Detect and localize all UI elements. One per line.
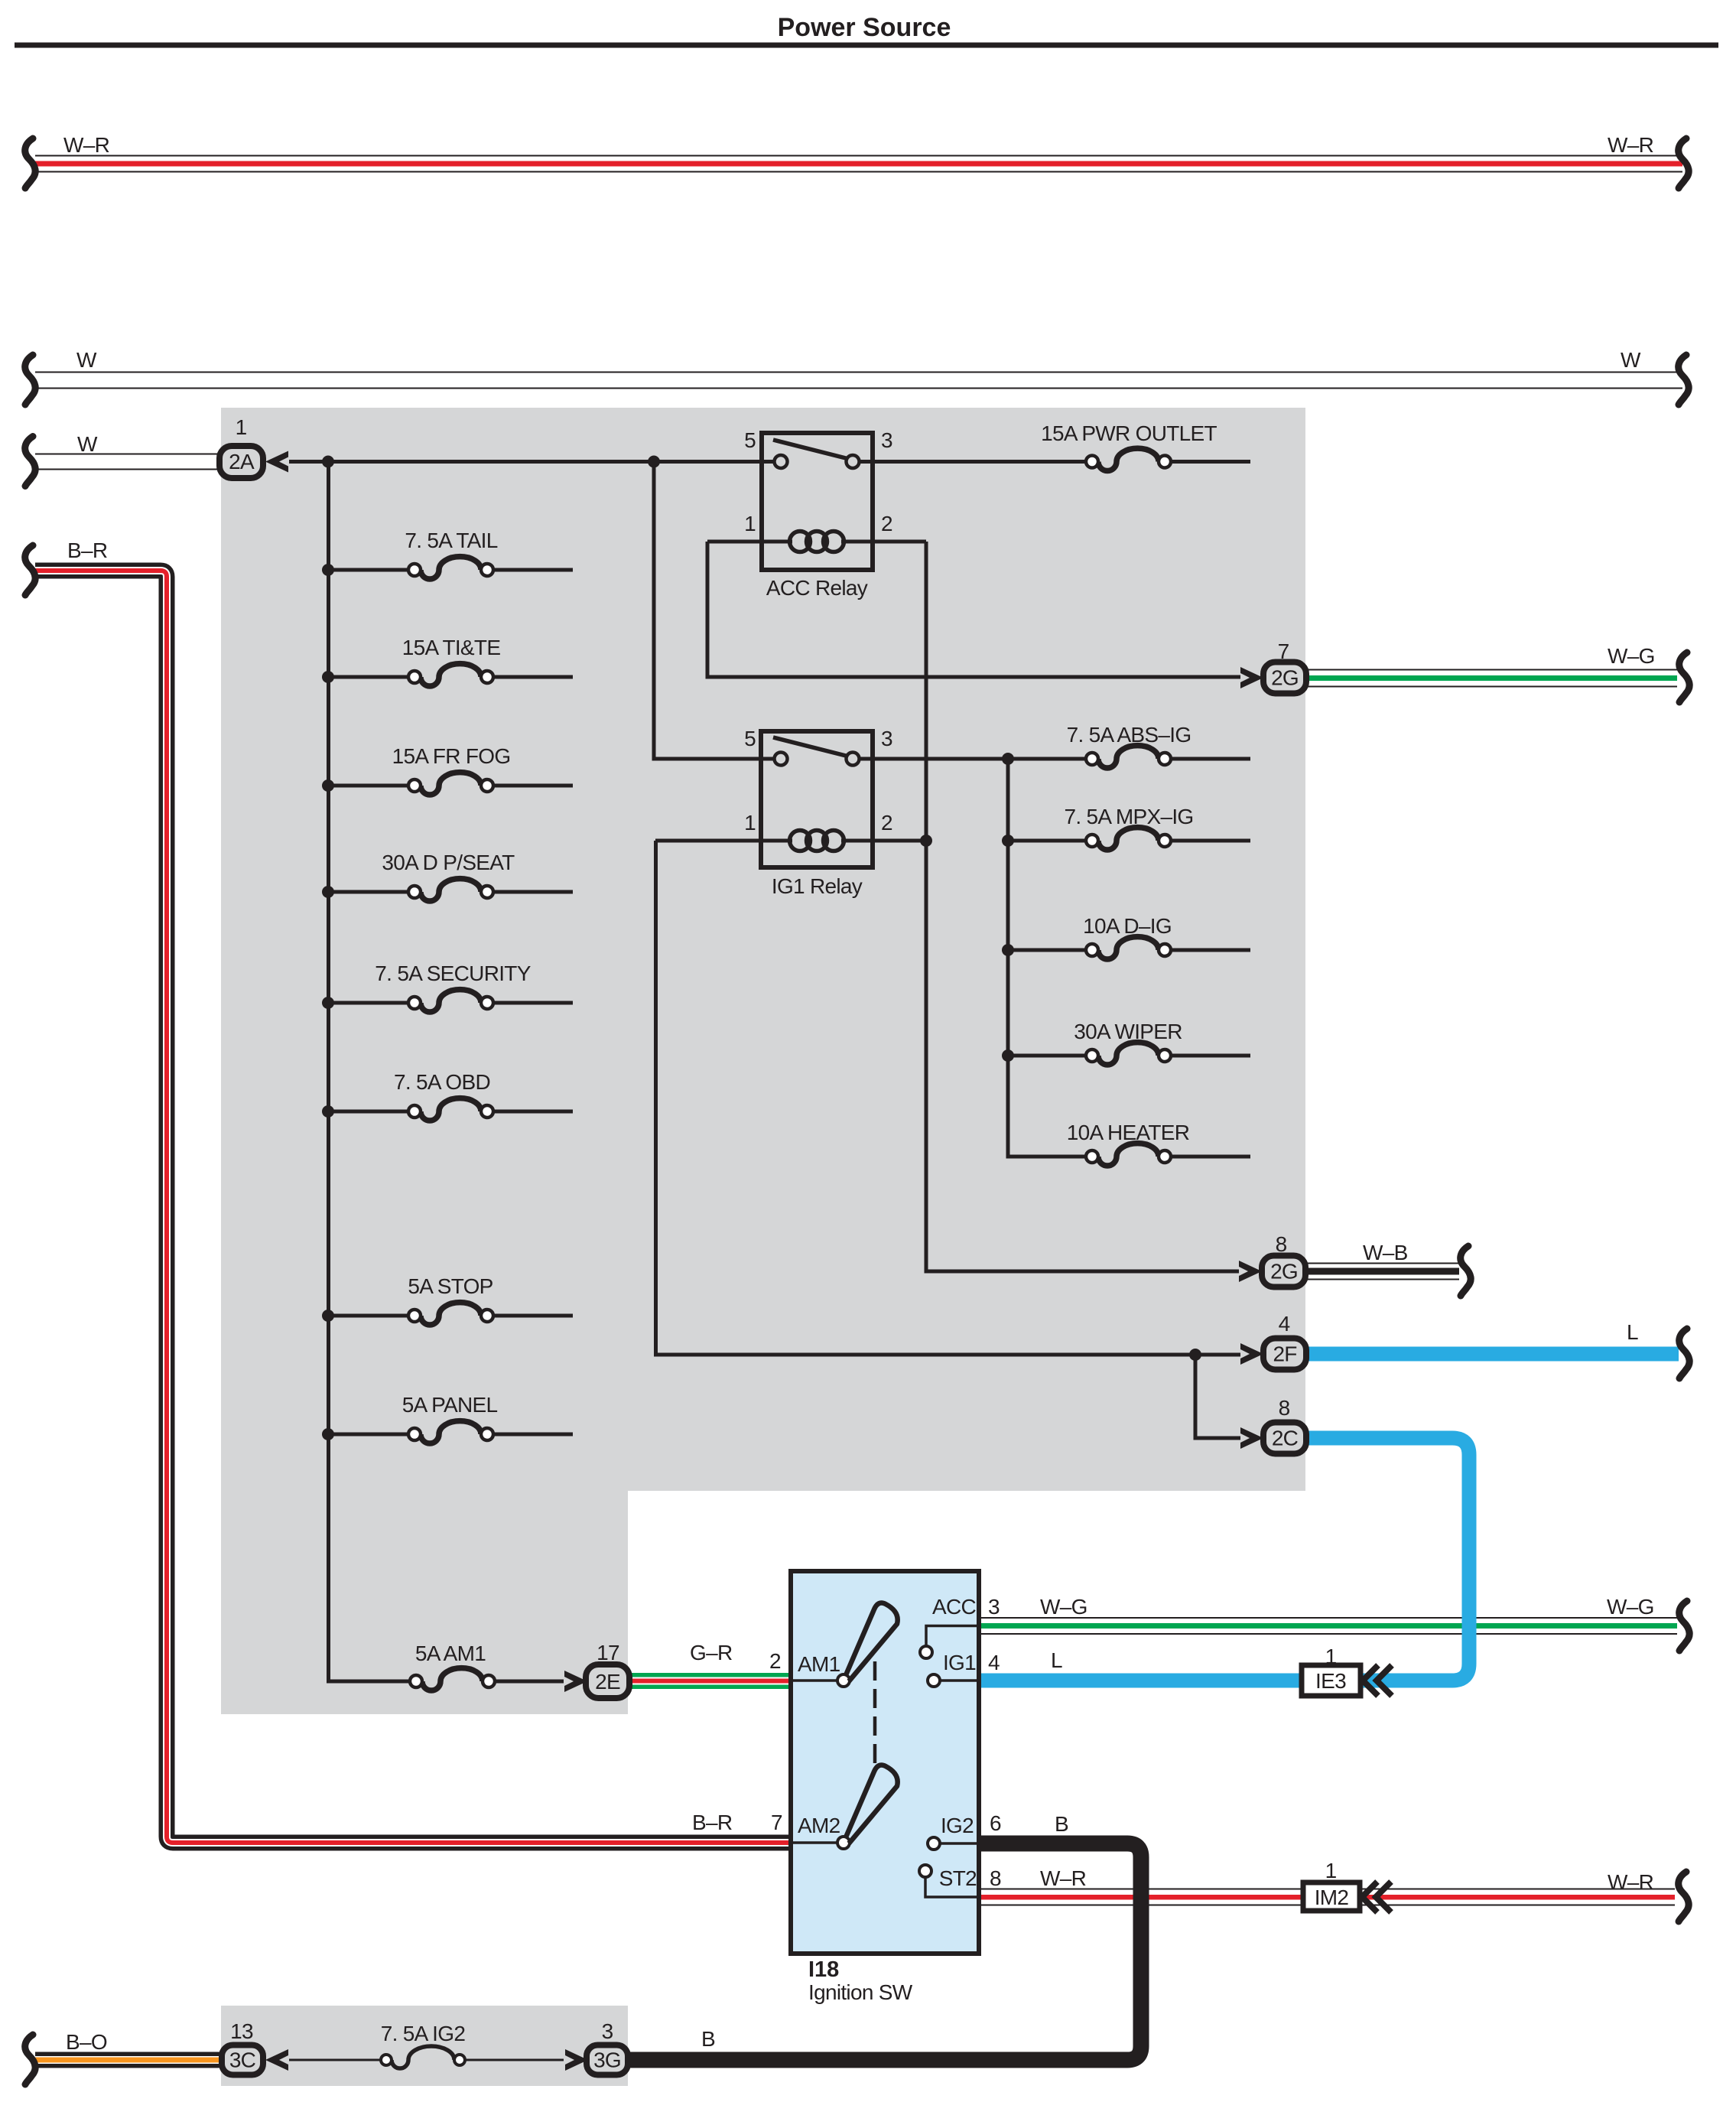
wire stub down to 2C	[1195, 1355, 1240, 1438]
node junction pin3 to right fuse column	[1002, 753, 1014, 765]
connector 2G pin7 with arrow	[1240, 639, 1306, 694]
svg-text:ACC Relay: ACC Relay	[766, 576, 868, 600]
ignition switch IG2 contact and lead	[928, 1837, 940, 1850]
svg-text:W–B: W–B	[1363, 1241, 1408, 1264]
relay IG1 Relay box	[744, 727, 892, 898]
svg-text:B–O: B–O	[66, 2030, 107, 2054]
fuse 30A D P/SEAT	[329, 851, 573, 901]
svg-text:3: 3	[988, 1595, 1000, 1619]
svg-text:3: 3	[602, 2019, 613, 2043]
ignition switch AM1 contact	[837, 1674, 850, 1687]
wire W-R top horizontal	[35, 156, 1682, 172]
connector 2E pin17 with arrow	[564, 1641, 629, 1698]
wire IG1 coil row	[655, 839, 792, 843]
svg-text:8: 8	[1279, 1396, 1290, 1420]
node junction coil-ground vertical at MPX row	[920, 835, 932, 847]
svg-text:IM2: IM2	[1315, 1886, 1349, 1909]
fuse 30A WIPER	[1008, 1020, 1250, 1065]
svg-text:7. 5A OBD: 7. 5A OBD	[394, 1070, 490, 1094]
svg-text:Power Source: Power Source	[778, 13, 951, 42]
svg-text:15A TI&TE: 15A TI&TE	[402, 636, 501, 659]
svg-text:2: 2	[881, 811, 892, 835]
svg-text:7: 7	[1278, 639, 1289, 663]
connector 3C pin13 with arrow	[222, 2019, 288, 2075]
wire IG1 pin1 route to 2F/2C	[656, 841, 1241, 1355]
svg-text:1: 1	[744, 512, 756, 535]
svg-text:W: W	[77, 432, 98, 456]
svg-text:ST2: ST2	[939, 1866, 977, 1890]
svg-text:W: W	[1621, 348, 1641, 372]
wire W-R from ST2 to right	[981, 1889, 1675, 1905]
fuse 10A HEATER	[1008, 1121, 1250, 1166]
node junction FR FOG row	[322, 779, 334, 792]
svg-text:2: 2	[881, 512, 892, 535]
node junction WIPER row	[1002, 1049, 1014, 1062]
svg-text:15A FR FOG: 15A FR FOG	[392, 744, 511, 768]
wire W-B ground lead from 2G pin8	[1306, 1264, 1459, 1280]
wire ACC relay coil row	[707, 540, 792, 544]
fuse 7.5A TAIL	[329, 529, 573, 579]
fuse 5A STOP	[329, 1274, 573, 1325]
fuse 15A PWR OUTLET	[860, 421, 1250, 471]
title rule	[15, 43, 1718, 48]
svg-text:1: 1	[1325, 1859, 1337, 1882]
svg-text:2: 2	[769, 1649, 781, 1673]
svg-text:6: 6	[990, 1811, 1001, 1835]
svg-text:B: B	[701, 2027, 715, 2051]
node junction STOP row	[322, 1310, 334, 1322]
fuse 7.5A SECURITY	[329, 962, 573, 1012]
connector-cut squiggle W-R bottom right	[1679, 1872, 1689, 1921]
svg-text:AM2: AM2	[798, 1814, 840, 1837]
node junction 2F/2C split	[1189, 1349, 1201, 1361]
connector-cut squiggle W-R left	[25, 138, 36, 188]
svg-text:4: 4	[988, 1651, 1000, 1674]
connector 2F pin4 with arrow	[1240, 1312, 1306, 1370]
svg-text:7. 5A MPX–IG: 7. 5A MPX–IG	[1064, 805, 1193, 828]
svg-text:I18: I18	[808, 1957, 839, 1982]
node junction 2A row to fuse column	[322, 456, 334, 468]
fuse 7.5A IG2	[289, 2022, 564, 2068]
ignition switch AM2 lead	[793, 1841, 838, 1844]
fuse 10A D-IG	[1008, 914, 1250, 959]
ignition switch AM1 lead	[793, 1679, 838, 1682]
svg-text:W–R: W–R	[1040, 1866, 1086, 1890]
svg-text:5A AM1: 5A AM1	[415, 1642, 486, 1665]
svg-text:1: 1	[236, 415, 247, 439]
svg-text:W–G: W–G	[1040, 1595, 1087, 1619]
svg-text:30A WIPER: 30A WIPER	[1074, 1020, 1182, 1043]
connector-cut squiggle W-G bottom right	[1679, 1601, 1690, 1651]
connector 2A with arrow	[219, 415, 288, 478]
svg-text:IG1 Relay: IG1 Relay	[772, 874, 863, 898]
svg-text:5A STOP: 5A STOP	[408, 1274, 493, 1298]
svg-text:W–R: W–R	[63, 133, 109, 157]
node junction TAIL row	[322, 564, 334, 576]
fuse 15A TI&TE	[329, 636, 573, 686]
ignition switch AM2 contact	[837, 1837, 850, 1849]
svg-text:3C: 3C	[229, 2048, 256, 2072]
fuse 7.5A ABS-IG	[1008, 723, 1250, 768]
svg-text:3: 3	[881, 428, 892, 452]
connector 2G pin8 with arrow	[1239, 1232, 1305, 1287]
svg-text:8: 8	[990, 1866, 1001, 1890]
svg-text:3: 3	[881, 727, 892, 750]
node junction OBD row	[322, 1105, 334, 1118]
svg-text:5A PANEL: 5A PANEL	[402, 1393, 498, 1417]
node junction TI&TE row	[322, 671, 334, 683]
connector-cut squiggle L right	[1679, 1329, 1690, 1378]
svg-text:1: 1	[744, 811, 756, 835]
svg-text:2C: 2C	[1272, 1427, 1299, 1450]
wire G-R from 2E to AM1	[629, 1673, 791, 1689]
svg-text:B–R: B–R	[67, 539, 107, 562]
connector 2C pin8 with arrow	[1240, 1396, 1306, 1454]
wire ACC pin1 to 2G pin7 row	[707, 542, 1240, 677]
svg-text:7: 7	[771, 1811, 782, 1834]
gray panel IG2 fuse block	[221, 2006, 628, 2086]
wire IG1 relay pin5 feed	[654, 462, 781, 760]
ignition switch I18 box	[791, 1571, 979, 1954]
node junction 2A row to IG1 relay feed	[648, 456, 660, 468]
svg-text:G–R: G–R	[690, 1641, 732, 1664]
svg-text:3G: 3G	[593, 2048, 621, 2072]
svg-text:10A HEATER: 10A HEATER	[1067, 1121, 1190, 1144]
wire 2A row to ACC relay pin5	[289, 460, 781, 464]
svg-text:1: 1	[1325, 1645, 1337, 1668]
wire L from 2F to right	[1306, 1347, 1679, 1362]
wire left fuse-column vertical with corner to AM1 fuse	[329, 460, 411, 1681]
svg-text:10A D–IG: 10A D–IG	[1083, 914, 1172, 938]
svg-text:7. 5A TAIL: 7. 5A TAIL	[405, 529, 497, 552]
svg-text:W–G: W–G	[1608, 644, 1655, 668]
fuse 5A AM1	[410, 1642, 564, 1690]
ignition switch blade dashed link	[873, 1661, 877, 1766]
svg-text:W–R: W–R	[1608, 1870, 1653, 1894]
svg-text:W–R: W–R	[1608, 133, 1653, 157]
svg-text:5: 5	[744, 428, 756, 452]
wire B-O from left squiggle to 3C	[35, 2052, 223, 2068]
svg-text:2G: 2G	[1270, 1260, 1298, 1284]
node junction PANEL row	[322, 1428, 334, 1440]
ignition switch AM1 blade	[846, 1603, 898, 1681]
svg-text:AM1: AM1	[798, 1652, 840, 1676]
wire W middle horizontal	[35, 373, 1682, 389]
svg-text:7. 5A IG2: 7. 5A IG2	[381, 2022, 466, 2045]
svg-text:Ignition SW: Ignition SW	[808, 1980, 913, 2004]
node junction SECURITY row	[322, 997, 334, 1009]
wire W into 2A	[35, 454, 219, 470]
svg-text:15A PWR OUTLET: 15A PWR OUTLET	[1041, 421, 1217, 445]
svg-text:30A D P/SEAT: 30A D P/SEAT	[382, 851, 515, 874]
wire ACC pin2 / IG1 pin2 ground drop to 2G pin8	[926, 542, 1239, 1271]
connector-cut squiggle W-B	[1461, 1246, 1471, 1296]
svg-text:B: B	[1055, 1812, 1068, 1836]
connector-cut squiggle W mid left	[25, 355, 36, 405]
connector IE3 junction box	[1302, 1645, 1392, 1696]
ignition switch ACC contact and lead	[920, 1646, 932, 1658]
svg-text:17: 17	[597, 1641, 619, 1664]
wire B-R battery feed (left squiggle to AM2)	[35, 571, 791, 1843]
svg-text:5: 5	[744, 727, 756, 750]
svg-text:2F: 2F	[1273, 1342, 1296, 1366]
ignition switch AM2 blade	[846, 1765, 898, 1843]
svg-text:8: 8	[1276, 1232, 1287, 1256]
wire B from IG2 down to 3G	[628, 1843, 1141, 2060]
wire right fuse-column vertical with corner to HEATER	[1008, 759, 1086, 1157]
wire L loop from IG1 terminal through IE3 up to 2C	[981, 1438, 1469, 1681]
fuse 7.5A MPX-IG	[1008, 805, 1250, 850]
svg-text:L: L	[1627, 1320, 1638, 1344]
svg-text:2A: 2A	[229, 450, 255, 473]
svg-text:W–G: W–G	[1607, 1595, 1654, 1619]
svg-text:IE3: IE3	[1315, 1669, 1346, 1693]
svg-text:L: L	[1051, 1648, 1062, 1672]
connector-cut squiggle W mid right	[1679, 355, 1689, 405]
svg-text:2G: 2G	[1271, 666, 1299, 690]
svg-text:IG1: IG1	[943, 1651, 976, 1674]
svg-text:IG2: IG2	[941, 1814, 974, 1837]
connector IM2 junction box	[1303, 1859, 1391, 1912]
wire IG1 pin3 output row	[860, 757, 1086, 761]
svg-text:ACC: ACC	[932, 1595, 976, 1619]
relay ACC Relay box	[744, 428, 892, 600]
svg-text:7. 5A SECURITY: 7. 5A SECURITY	[375, 962, 531, 985]
connector-cut squiggle W-G pin7	[1679, 652, 1690, 702]
junction-block gray panel	[221, 408, 1305, 1714]
svg-text:W: W	[76, 348, 97, 372]
svg-text:7. 5A ABS–IG: 7. 5A ABS–IG	[1067, 723, 1191, 747]
fuse 15A FR FOG	[329, 744, 573, 795]
node junction D-IG row	[1002, 944, 1014, 956]
connector-cut squiggle B-R left	[25, 545, 36, 595]
svg-text:4: 4	[1279, 1312, 1290, 1336]
fuse 7.5A OBD	[329, 1070, 573, 1121]
wire W-G ignition ACC to right	[981, 1618, 1677, 1634]
svg-text:2E: 2E	[595, 1670, 620, 1694]
wire W-G from 2G pin7 to right	[1306, 670, 1677, 687]
fuse 5A PANEL	[329, 1393, 573, 1443]
connector 3G pin3 with arrow	[565, 2019, 628, 2075]
connector-cut squiggle W 2A left	[25, 437, 36, 486]
connector-cut squiggle W-R right	[1679, 138, 1689, 188]
svg-text:13: 13	[230, 2019, 253, 2043]
svg-text:B–R: B–R	[692, 1811, 732, 1834]
connector-cut squiggle B-O left	[25, 2035, 36, 2084]
node junction D P/SEAT row	[322, 886, 334, 898]
node junction MPX row	[1002, 835, 1014, 847]
ignition switch ST2 contact and lead	[919, 1865, 931, 1877]
ignition switch IG1 contact and lead	[928, 1674, 940, 1687]
